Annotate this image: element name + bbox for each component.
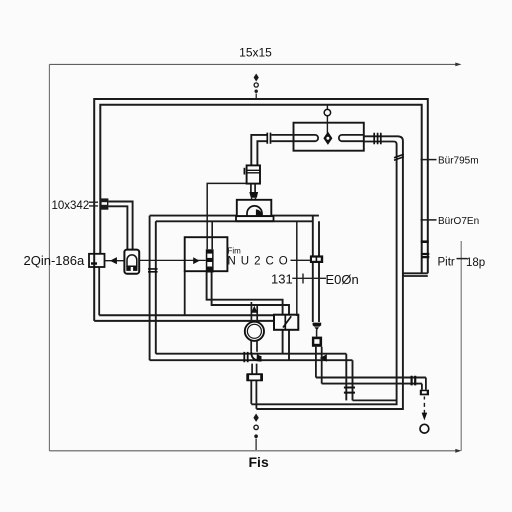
tick BirOEn <box>421 219 437 221</box>
svg-text:Fim: Fim <box>228 247 242 256</box>
arrowhead down <box>422 413 428 421</box>
pipe from fitting to valve V1 <box>108 202 132 250</box>
inner line of that pair <box>211 221 213 249</box>
coupling right of muffler <box>374 133 381 144</box>
stub below NU box <box>184 271 186 315</box>
fitting 10x342 on left pipe <box>100 198 108 209</box>
nozzle cap <box>313 323 322 327</box>
run3 horizontal <box>150 354 353 361</box>
leader dots bottom <box>253 414 258 422</box>
dashed drop <box>423 397 425 413</box>
svg-text:NU2CO: NU2CO <box>228 256 293 268</box>
NU box <box>185 237 228 271</box>
arrow left <box>110 257 117 264</box>
pump circle <box>245 322 264 341</box>
coupling on left riser <box>148 269 158 272</box>
vent line <box>326 105 328 133</box>
stub from box B1 to bottom inner line <box>98 267 100 316</box>
loop2 right riser <box>251 136 403 409</box>
stems below pump <box>251 341 257 352</box>
short link <box>316 330 318 337</box>
vent circle <box>324 109 330 115</box>
wire from cylinder left <box>207 183 246 249</box>
wire V1 to valve bar with arrow <box>139 259 206 261</box>
approx marks <box>89 202 98 206</box>
riser below fitting <box>316 347 322 384</box>
elbow at pump bottom <box>251 352 261 361</box>
arrowhead bottom dimension <box>455 449 461 453</box>
pipe pair below valve bar going right-down <box>207 273 289 361</box>
elbow down right <box>422 378 426 390</box>
tick Bar79m <box>421 159 437 161</box>
big loop bottom pair <box>94 315 297 321</box>
svg-text:15x15: 15x15 <box>239 46 272 60</box>
svg-text:131: 131 <box>271 272 293 287</box>
wire B1 to V1 with arrow <box>105 260 125 262</box>
svg-text:Fis: Fis <box>249 454 269 470</box>
muffler outlet right <box>364 136 398 141</box>
coupling on lower right run <box>412 376 416 386</box>
joint on right pipe upper <box>421 240 429 243</box>
arrowhead top dimension <box>455 63 461 67</box>
solenoid valve two squares <box>274 315 298 330</box>
label 131 leader <box>292 277 326 279</box>
joint on right pipe lower <box>421 254 429 257</box>
svg-text:Pitr: Pitr <box>438 257 455 269</box>
svg-text:18p: 18p <box>466 257 485 269</box>
joint on loop2 riser <box>394 154 404 160</box>
dimension extension line left <box>48 64 50 450</box>
muffler left pipe <box>271 135 318 141</box>
dark wedge <box>249 192 258 198</box>
pump house pipe run <box>150 216 319 222</box>
stem below cylinder <box>251 184 255 192</box>
big loop inner rectangle <box>100 105 421 274</box>
muffler left coupling <box>267 133 270 144</box>
muffler right pipe <box>339 135 364 141</box>
leader dots top <box>254 74 259 82</box>
stem above pump <box>251 302 257 322</box>
wire260 dash right of text <box>291 259 310 261</box>
fitting on that riser <box>344 388 355 393</box>
svg-text:BürO7En: BürO7En <box>438 216 479 227</box>
svg-text:2Qin-186a: 2Qin-186a <box>24 253 85 268</box>
flange <box>247 374 263 380</box>
dark quarter <box>256 209 262 216</box>
dimension extension line right <box>460 241 462 451</box>
big loop outer rectangle <box>94 99 428 321</box>
muffler box <box>294 123 364 151</box>
lower right run <box>316 378 426 384</box>
arrow right small <box>193 257 199 264</box>
dimension line bottom <box>49 450 458 452</box>
box B1 on left pipe <box>89 254 105 267</box>
center pipe pair down from run <box>313 216 319 322</box>
dark fitting <box>312 337 322 347</box>
svg-text:Bür795m: Bür795m <box>438 156 479 167</box>
left riser of loop2 <box>150 216 156 361</box>
fitting crossing wire260 <box>310 255 323 263</box>
diamond in muffler <box>323 132 332 145</box>
jog line <box>353 399 397 401</box>
svg-text:10x342: 10x342 <box>52 200 90 212</box>
cylinder <box>247 165 260 183</box>
dimension line top <box>49 63 458 65</box>
dome in house <box>247 206 262 216</box>
valve bar in NU box <box>206 249 214 272</box>
valve V1 <box>124 250 139 274</box>
coupling left of elbow <box>244 352 247 362</box>
arrow on run3 <box>320 354 327 362</box>
riser down right of run3 <box>346 354 352 401</box>
pump house <box>237 200 271 216</box>
cylinder feed pair from muffler left pipe <box>251 135 267 166</box>
stem to flange <box>252 364 257 374</box>
up arrow <box>251 306 258 313</box>
svg-text:E0Øn: E0Øn <box>326 272 359 287</box>
right pipe bottom joint <box>403 273 428 276</box>
house plate <box>236 216 274 221</box>
connector loop2 riser to right pipe <box>402 273 404 276</box>
terminal circle <box>420 424 429 433</box>
coupling under elbow <box>420 390 429 396</box>
center single line <box>296 221 298 316</box>
stem below flange <box>251 381 256 409</box>
